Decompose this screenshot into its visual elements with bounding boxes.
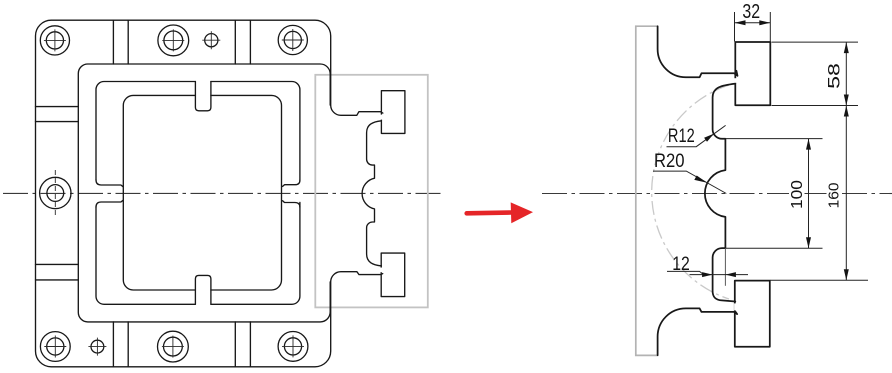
crosshair TL screw: [44, 29, 66, 51]
inner ring R3: [123, 95, 281, 290]
svg-text:R20: R20: [654, 151, 685, 172]
screw hole BL: [40, 332, 70, 362]
crosshair BL screw: [44, 336, 66, 358]
plate outer outline: [36, 20, 383, 367]
screw hole BR: [278, 332, 308, 362]
svg-text:32: 32: [742, 1, 760, 23]
crosshair TR screw: [282, 29, 304, 51]
R2 top notch: [195, 82, 211, 111]
plate lower T-rail tab: [381, 253, 405, 297]
dim 160 line: [845, 106, 847, 281]
plate upper T-rail tab: [381, 91, 405, 134]
svg-text:160: 160: [825, 183, 842, 209]
R20 leader: [653, 171, 726, 193]
pin hole bottom: [91, 340, 104, 353]
svg-text:58: 58: [825, 63, 844, 89]
dim 100 extension lines: [726, 139, 823, 249]
dim 32 extension lines: [735, 12, 771, 42]
detail break boundary (gray bracket): [636, 26, 659, 355]
R2 bottom notch: [195, 275, 211, 304]
screw hole TR: [278, 25, 307, 54]
left band slot lines: [36, 107, 79, 280]
detail zone box (gray): [315, 75, 428, 308]
crosshair pin bottom: [88, 338, 106, 356]
screw hole top middle: [158, 25, 189, 56]
dim 100 line: [808, 139, 810, 249]
pin hole top: [205, 34, 218, 47]
ring R2 top edge: [96, 82, 300, 181]
crosshair left middle screw (dashed vertical): [54, 170, 56, 216]
svg-text:12: 12: [672, 254, 690, 275]
dim 100 arrows: [806, 139, 811, 150]
ring R2 bottom edge: [96, 202, 300, 304]
svg-text:R12: R12: [668, 126, 695, 147]
R20 leader arrow: [694, 176, 707, 183]
dim 58 extension lines: [772, 42, 859, 105]
screw hole TL: [40, 26, 69, 55]
dim 12 line: [667, 271, 748, 274]
dim 32 line: [735, 22, 771, 24]
bottom band slot lines: [113, 322, 250, 367]
crosshair pin top: [202, 31, 220, 49]
dim 160 bottom extension: [770, 279, 868, 281]
detail profile lower section: [658, 308, 738, 355]
detail boundary arc (gray dash-dot): [652, 85, 729, 299]
left middle slot caps: [96, 180, 123, 187]
R12 leader arrow: [704, 134, 714, 142]
undercut gaps (white): [380, 78, 736, 310]
svg-text:100: 100: [789, 180, 806, 209]
dim 12 arrows: [702, 272, 713, 277]
detail lower T-rail tab: [735, 281, 770, 347]
extension line of slot wall (12 dim reference): [724, 248, 726, 286]
red detail arrow: [467, 202, 533, 223]
detail profile upper section: [658, 26, 738, 77]
dim 160 arrows: [844, 106, 849, 117]
crosshair bottom middle screw: [162, 336, 184, 358]
crosshair BR screw: [282, 335, 304, 357]
centerline detail view: [542, 193, 892, 195]
detail profile middle section: [705, 84, 735, 302]
dim 58 line: [845, 42, 847, 105]
pocket ring R1: [78, 64, 330, 322]
dim 32 arrows: [735, 20, 746, 25]
R12 leader: [667, 125, 726, 146]
dim 58 arrows: [844, 42, 849, 53]
white halo for rotated dim texts: [789, 177, 840, 213]
screw hole left middle: [40, 177, 71, 208]
screw hole bottom middle: [158, 331, 189, 362]
crosshair top middle screw: [162, 29, 184, 51]
detail upper T-rail tab: [735, 42, 770, 105]
centerline left view: [3, 192, 444, 194]
plate T-slot inner profile (right side): [362, 121, 381, 266]
right middle slot caps: [283, 180, 300, 186]
top band slot lines: [113, 20, 250, 64]
